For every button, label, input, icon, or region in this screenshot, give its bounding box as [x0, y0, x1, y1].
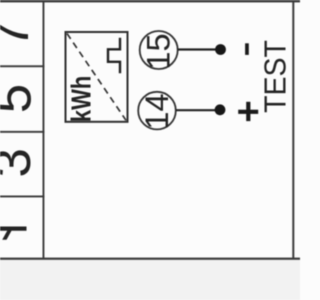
svg-text:14: 14 [139, 93, 175, 129]
svg-text:15: 15 [141, 33, 177, 69]
svg-text:5: 5 [0, 84, 43, 113]
svg-text:3: 3 [0, 148, 42, 177]
svg-text:7: 7 [0, 19, 40, 48]
svg-text:kWh: kWh [66, 76, 97, 122]
svg-text:TEST: TEST [258, 40, 292, 113]
